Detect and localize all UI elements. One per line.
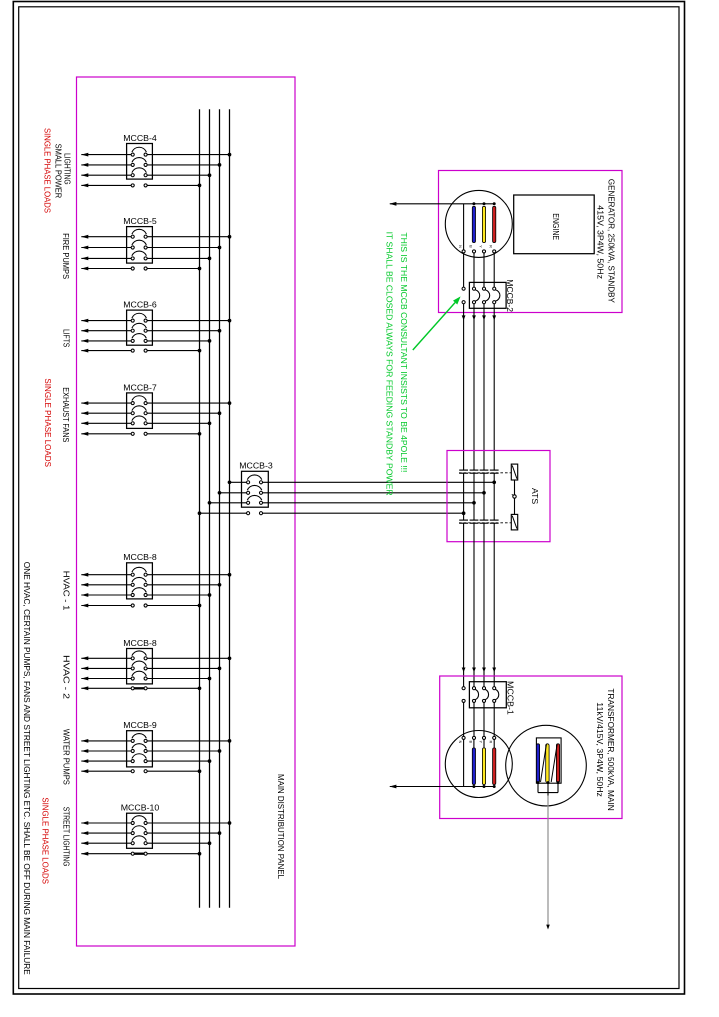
label MCCB-9 <box>123 721 157 730</box>
svg-text:MCCB-7: MCCB-7 <box>123 383 157 392</box>
wire MCCB-7 pole L1 to bus B <box>81 416 211 425</box>
wire MCCB-8 pole L1 to bus B <box>81 671 211 680</box>
svg-text:MCCB-8: MCCB-8 <box>123 553 157 562</box>
wire B MCCB-1 to transformer secondary <box>473 703 475 737</box>
wire MCCB-10 pole L1 to bus B <box>81 836 211 845</box>
wire MCCB-7 neutral link to bus N <box>81 432 201 436</box>
MCCB-2 neutral bypass link <box>462 287 465 304</box>
label MAIN DISTRIBUTION PANEL <box>276 774 285 879</box>
wire R ATS to MCCB-1 <box>492 523 496 687</box>
wire MCCB-8 pole L3 to bus R <box>81 651 231 660</box>
wire MCCB-10 pole L2 to bus Y <box>81 826 221 835</box>
wire Y MCCB-1 to transformer secondary <box>483 703 485 737</box>
label HVAC - 2 <box>61 655 70 700</box>
11kV incoming feeder (grey) <box>546 796 550 930</box>
breaker MCCB-2 box <box>469 282 506 308</box>
wire Y inside ATS <box>483 473 485 520</box>
bus bar N <box>199 109 201 908</box>
wire bus R through MCCB-3 pole to ATS <box>228 475 496 484</box>
breaker MCCB-5 box <box>127 227 153 264</box>
label LIFTS <box>62 329 71 348</box>
wire bus B through MCCB-3 pole to ATS <box>208 495 476 504</box>
label SMALL POWER <box>53 144 62 199</box>
label HVAC - 1 <box>61 571 70 611</box>
breaker MCCB-1 box <box>469 682 506 708</box>
secondary N drop wire <box>463 740 465 787</box>
wire MCCB-7 pole L3 to bus R <box>81 396 231 405</box>
breaker MCCB-8 box <box>127 649 153 684</box>
label MCCB-7 <box>123 383 157 392</box>
wire MCCB-8 pole L1 to bus B <box>81 588 211 597</box>
green pointer arrow to MCCB-2 <box>413 296 461 350</box>
label MCCB-5 <box>123 217 157 226</box>
label MCCB-8 <box>123 553 157 562</box>
svg-text:415V, 3P4W, 50Hz: 415V, 3P4W, 50Hz <box>595 205 604 279</box>
wire MCCB-6 pole L1 to bus B <box>81 334 211 343</box>
generator neutral takeoff wire with arrow <box>389 202 494 206</box>
wire bus N link below MCCB-3 to ATS <box>198 511 466 515</box>
svg-text:MCCB-3: MCCB-3 <box>239 461 273 470</box>
svg-text:LIFTS: LIFTS <box>62 329 71 348</box>
svg-text:N: N <box>458 245 462 248</box>
svg-text:11kV/415V, 3P4W, 50Hz: 11kV/415V, 3P4W, 50Hz <box>595 702 604 797</box>
wire MCCB-4 pole L3 to bus R <box>81 147 231 156</box>
label 415V, 3P4W, 50Hz <box>595 205 604 279</box>
ATS lower contacts (mains side) <box>459 520 498 523</box>
label MCCB-4 <box>123 134 157 143</box>
svg-text:MCCB-10: MCCB-10 <box>121 804 160 813</box>
wire MCCB-10 neutral link to bus N <box>81 852 201 856</box>
wire MCCB-5 pole L1 to bus B <box>81 251 211 260</box>
wire MCCB-6 pole L3 to bus R <box>81 313 231 322</box>
transformer secondary circle <box>445 731 512 798</box>
label LIGHTING <box>63 153 72 185</box>
label EXHAUST FANS <box>61 387 70 442</box>
svg-text:MCCB-1: MCCB-1 <box>505 681 514 715</box>
secondary winding bar B <box>472 740 475 789</box>
wire R MCCB-2 to ATS <box>492 304 496 470</box>
bus bar R <box>229 109 231 908</box>
label TRANSFORMER, 500kVA, MAIN <box>606 688 615 810</box>
main distribution panel enclosure <box>77 77 296 946</box>
svg-text:SINGLE PHASE LOADS: SINGLE PHASE LOADS <box>41 797 50 884</box>
primary delta links <box>537 744 560 784</box>
label MCCB-6 <box>123 301 157 310</box>
svg-text:MCCB-6: MCCB-6 <box>123 301 157 310</box>
wire N inside ATS <box>463 473 465 520</box>
wire MCCB-8 pole L2 to bus Y <box>81 661 221 670</box>
label MCCB-3 <box>239 461 273 470</box>
svg-text:ONE HVAC, CERTAIN PUMPS, F: ONE HVAC, CERTAIN PUMPS, FANS AND STREET… <box>22 562 31 976</box>
engine box <box>514 195 595 254</box>
wire generator Y to MCCB-2 <box>483 253 485 287</box>
wire B inside ATS <box>473 473 475 520</box>
svg-text:EXHAUST FANS: EXHAUST FANS <box>61 387 70 442</box>
generator N drop wire <box>463 204 465 250</box>
wire R inside ATS <box>493 473 495 520</box>
generator circle G1 <box>445 190 512 257</box>
MCCB-1 neutral bypass link <box>462 687 465 703</box>
svg-text:MCCB-4: MCCB-4 <box>123 134 157 143</box>
ATS enclosure <box>447 451 550 542</box>
generator winding bar B phase <box>472 202 475 242</box>
breaker MCCB-10 box <box>127 813 153 848</box>
wire MCCB-4 pole L1 to bus B <box>81 168 211 177</box>
wire MCCB-6 pole L2 to bus Y <box>81 323 221 332</box>
label ENGINE <box>551 213 560 240</box>
primary collector bracket <box>538 783 558 796</box>
transformer enclosure <box>440 676 622 819</box>
svg-text:MCCB-8: MCCB-8 <box>123 639 157 648</box>
wire MCCB-8 pole L3 to bus R <box>81 567 231 576</box>
label WATER PUMPS <box>61 729 70 785</box>
label ATS <box>530 488 539 505</box>
label MCCB-1 <box>505 681 514 715</box>
green note line 1 <box>399 232 408 472</box>
svg-text:HVAC - 2: HVAC - 2 <box>61 655 70 700</box>
wire generator N to MCCB-2 <box>463 253 465 287</box>
label MCCB-10 <box>121 804 160 813</box>
ATS upper actuator <box>511 464 517 480</box>
svg-text:GENERATOR, 250kVA, STANDBY: GENERATOR, 250kVA, STANDBY <box>606 179 615 304</box>
primary winding bar Y <box>546 744 549 783</box>
label SINGLE PHASE LOADS (top) <box>42 128 51 213</box>
wire N ATS to MCCB-1 <box>462 523 466 687</box>
label GENERATOR, 250kVA, STANDBY <box>606 179 615 304</box>
primary winding bar R <box>556 744 559 783</box>
label SINGLE PHASE LOADS (bottom) <box>41 797 50 884</box>
label 11kV/415V, 3P4W, 50Hz <box>595 702 604 797</box>
green note line 2 <box>385 232 394 496</box>
wire MCCB-5 pole L2 to bus Y <box>81 240 221 249</box>
breaker MCCB-8 box <box>127 563 153 599</box>
ATS upper linkage dashed <box>459 472 511 474</box>
ATS upper contacts (generator side) <box>459 470 498 473</box>
label MCCB-8 <box>123 639 157 648</box>
svg-text:R: R <box>489 245 493 248</box>
wire MCCB-10 pole L3 to bus R <box>81 816 231 825</box>
svg-text:HVAC - 1: HVAC - 1 <box>61 571 70 611</box>
svg-text:STREET LIGHTING: STREET LIGHTING <box>61 807 70 867</box>
svg-text:LIGHTING: LIGHTING <box>63 153 72 185</box>
wire MCCB-4 neutral link to bus N <box>81 184 201 188</box>
svg-text:IT SHALL BE CLOSED ALWAYS: IT SHALL BE CLOSED ALWAYS FOR FEEDING ST… <box>385 232 394 496</box>
secondary winding bar Y <box>482 740 485 789</box>
wire MCCB-5 neutral link to bus N <box>81 267 201 271</box>
svg-text:N: N <box>458 741 462 744</box>
wire N MCCB-2 to ATS <box>462 304 466 470</box>
secondary star point wire with arrow <box>389 785 494 789</box>
wire Y ATS to MCCB-1 <box>482 523 486 687</box>
svg-text:THIS IS THE MCCB CONSULTAN: THIS IS THE MCCB CONSULTANT INSISTS TO B… <box>399 232 408 472</box>
transformer primary circle <box>506 725 587 806</box>
MCCB-1 poles B Y R <box>472 687 498 703</box>
wire MCCB-9 pole L2 to bus Y <box>81 744 221 753</box>
wire MCCB-4 pole L2 to bus Y <box>81 158 221 167</box>
wire MCCB-9 pole L1 to bus B <box>81 754 211 763</box>
transformer secondary terminals N B Y R <box>458 736 496 743</box>
wire B ATS to MCCB-1 <box>472 523 476 687</box>
wire MCCB-9 pole L3 to bus R <box>81 734 231 743</box>
svg-text:SINGLE PHASE LOADS: SINGLE PHASE LOADS <box>43 378 52 467</box>
svg-text:MCCB-9: MCCB-9 <box>123 721 157 730</box>
secondary winding bar R <box>493 740 496 789</box>
note ONE HVAC ... MAIN FAILURE <box>22 562 31 976</box>
wire MCCB-8 neutral link to bus N <box>81 604 201 608</box>
primary winding bar B <box>536 744 539 783</box>
ATS lower linkage dashed <box>459 522 511 524</box>
MCCB-2 poles B Y R <box>472 287 499 304</box>
svg-text:SMALL POWER: SMALL POWER <box>53 144 62 199</box>
svg-text:WATER PUMPS: WATER PUMPS <box>61 729 70 785</box>
svg-text:SINGLE PHASE LOADS: SINGLE PHASE LOADS <box>42 128 51 213</box>
wire MCCB-9 neutral link to bus N <box>81 769 201 773</box>
bus bar B <box>209 109 211 908</box>
bus bar Y <box>219 109 221 908</box>
svg-text:MAIN DISTRIBUTION PANEL: MAIN DISTRIBUTION PANEL <box>276 774 285 879</box>
ATS actuator link <box>512 480 516 514</box>
label STREET LIGHTING <box>61 807 70 867</box>
wire MCCB-5 pole L3 to bus R <box>81 229 231 238</box>
primary winding box <box>536 738 561 783</box>
breaker MCCB-4 box <box>127 144 153 180</box>
breaker MCCB-6 box <box>127 310 153 345</box>
wire generator B to MCCB-2 <box>473 253 475 287</box>
label SINGLE PHASE LOADS (middle) <box>43 378 52 467</box>
svg-text:MCCB-2: MCCB-2 <box>505 279 514 312</box>
wire MCCB-8 neutral link to bus N <box>81 686 201 690</box>
label FIRE PUMPS <box>61 233 70 279</box>
wire R MCCB-1 to transformer secondary <box>493 703 495 737</box>
generator winding bar R phase <box>493 202 496 242</box>
svg-text:FIRE PUMPS: FIRE PUMPS <box>61 233 70 279</box>
breaker MCCB-9 box <box>127 731 153 767</box>
wire MCCB-8 pole L2 to bus Y <box>81 577 221 586</box>
svg-text:ENGINE: ENGINE <box>551 213 560 240</box>
generator terminals N B Y R <box>458 245 496 253</box>
ATS lower actuator <box>511 514 517 530</box>
wire MCCB-7 pole L2 to bus Y <box>81 406 221 415</box>
svg-text:TRANSFORMER, 500kVA, MAIN: TRANSFORMER, 500kVA, MAIN <box>606 688 615 810</box>
breaker MCCB-3 box <box>242 471 269 507</box>
wire N MCCB-1 to transformer secondary <box>463 703 465 737</box>
wire bus Y through MCCB-3 pole to ATS <box>218 485 486 494</box>
generator winding bar Y phase <box>482 202 485 242</box>
wire MCCB-6 neutral link to bus N <box>81 349 201 353</box>
wire Y MCCB-2 to ATS <box>482 304 486 470</box>
generator enclosure <box>439 171 623 313</box>
svg-text:MCCB-5: MCCB-5 <box>123 217 157 226</box>
svg-text:ATS: ATS <box>530 488 539 505</box>
wire B MCCB-2 to ATS <box>472 304 476 470</box>
label MCCB-2 <box>505 279 514 312</box>
breaker MCCB-7 box <box>127 393 153 429</box>
wire generator R to MCCB-2 <box>493 253 495 287</box>
svg-text:R: R <box>489 741 493 744</box>
